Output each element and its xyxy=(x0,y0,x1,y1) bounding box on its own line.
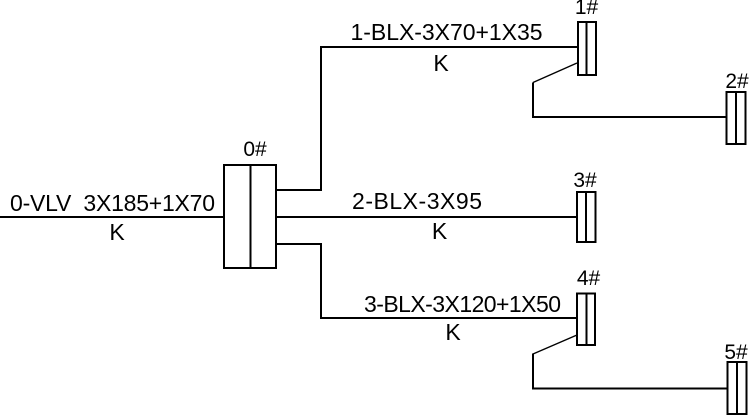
panel box 5# xyxy=(728,362,747,414)
panel box 3# xyxy=(577,192,596,242)
svg-text:1-BLX-3X70+1X35: 1-BLX-3X70+1X35 xyxy=(351,19,543,45)
svg-text:3#: 3# xyxy=(573,169,597,192)
svg-text:4#: 4# xyxy=(577,267,601,290)
svg-text:K: K xyxy=(445,319,461,345)
wire branch1 riser xyxy=(276,47,577,190)
wire 1# to 2# xyxy=(533,83,726,118)
svg-text:0#: 0# xyxy=(243,138,267,161)
wire diagonal 4# drop xyxy=(533,335,577,354)
svg-text:0-VLV 3X185+1X70: 0-VLV 3X185+1X70 xyxy=(10,190,215,216)
svg-text:2-BLX-3X95: 2-BLX-3X95 xyxy=(352,188,482,214)
svg-text:K: K xyxy=(432,218,448,244)
svg-text:5#: 5# xyxy=(724,341,748,364)
svg-text:2#: 2# xyxy=(725,70,749,93)
wire branch3 riser xyxy=(276,244,577,318)
panel box 2# xyxy=(727,92,746,144)
panel box 4# xyxy=(577,294,595,346)
distribution box 0# xyxy=(224,165,276,268)
svg-text:3-BLX-3X120+1X50: 3-BLX-3X120+1X50 xyxy=(364,291,561,317)
panel box 1# xyxy=(578,22,596,75)
svg-text:K: K xyxy=(433,50,449,76)
svg-text:1#: 1# xyxy=(575,0,599,19)
wire 4# to 5# xyxy=(533,354,727,389)
wire diagonal 1# drop xyxy=(533,63,577,83)
svg-text:K: K xyxy=(109,219,125,245)
wire branch2 xyxy=(276,216,577,218)
wire main feeder xyxy=(0,216,223,218)
